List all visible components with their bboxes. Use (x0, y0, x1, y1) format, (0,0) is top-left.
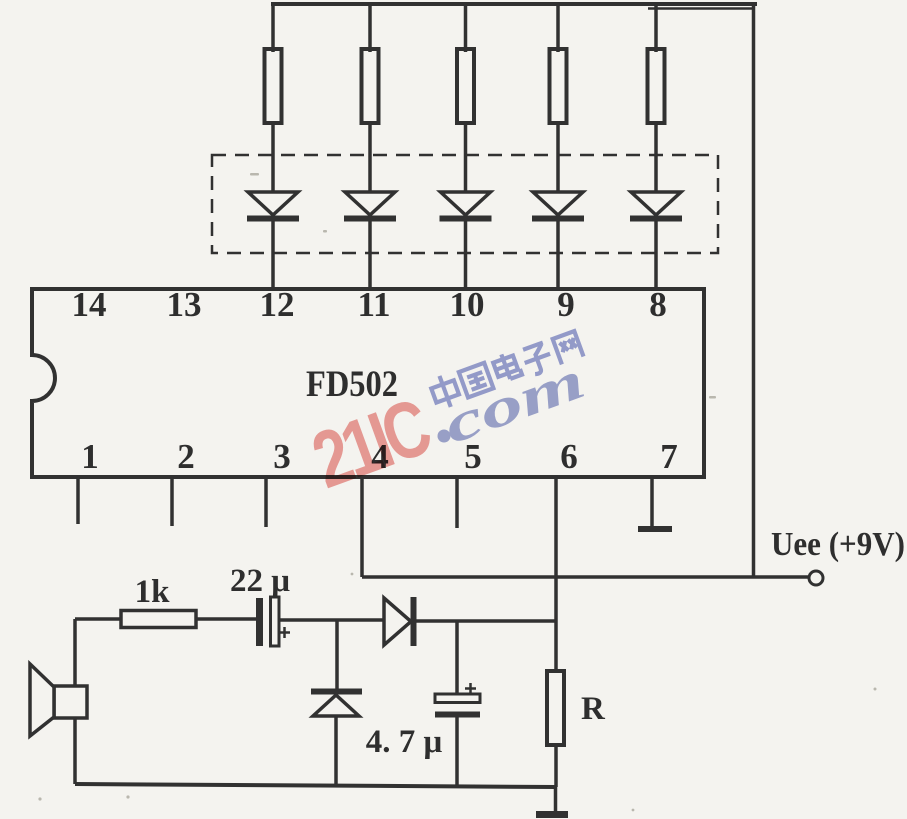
svg-text:7: 7 (660, 437, 678, 476)
svg-text:9: 9 (557, 285, 575, 324)
svg-text:Uee (+9V): Uee (+9V) (771, 526, 905, 563)
svg-text:1: 1 (81, 437, 99, 476)
svg-text:1k: 1k (135, 574, 171, 610)
svg-text:3: 3 (273, 437, 291, 476)
svg-text:2: 2 (177, 437, 195, 476)
svg-text:8: 8 (649, 285, 667, 324)
svg-text:14: 14 (72, 285, 107, 324)
svg-text:10: 10 (450, 285, 485, 324)
svg-text:R: R (581, 691, 606, 727)
svg-text:11: 11 (357, 285, 390, 324)
svg-text:22 μ: 22 μ (230, 563, 290, 599)
svg-text:12: 12 (260, 285, 295, 324)
svg-text:4. 7 μ: 4. 7 μ (366, 724, 443, 760)
svg-text:13: 13 (167, 285, 202, 324)
svg-text:6: 6 (560, 437, 578, 476)
